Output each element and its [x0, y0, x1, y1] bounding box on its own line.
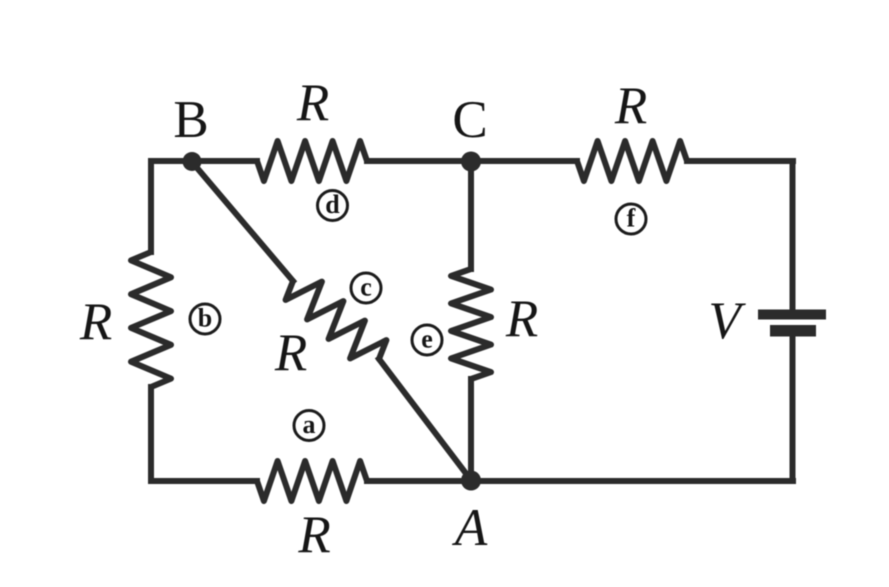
- wire bottom right: [367, 478, 793, 484]
- svg-text:e: e: [421, 325, 433, 354]
- resistor R f: [577, 141, 687, 181]
- node A: [461, 471, 481, 491]
- resistor R a: [257, 461, 367, 501]
- resistor R c: [286, 281, 387, 359]
- node C: [461, 152, 481, 172]
- wire right lower: [790, 337, 796, 481]
- resistor R e: [451, 269, 491, 379]
- node B: [183, 152, 202, 171]
- wire top middle: [367, 158, 577, 164]
- wire diagonal B to c: [192, 162, 293, 281]
- svg-text:C: C: [452, 91, 487, 149]
- circled f: [616, 204, 646, 235]
- wire C down: [468, 161, 474, 269]
- svg-text:V: V: [708, 292, 746, 350]
- svg-text:R: R: [505, 290, 538, 348]
- svg-text:R: R: [296, 74, 329, 132]
- circled c: [351, 273, 381, 304]
- wire bottom left: [151, 478, 257, 484]
- circled e: [412, 325, 442, 356]
- svg-text:d: d: [325, 190, 340, 219]
- svg-text:B: B: [173, 91, 208, 149]
- wire left lower: [148, 387, 154, 481]
- svg-text:f: f: [627, 204, 636, 233]
- wire top right: [687, 158, 793, 164]
- svg-text:A: A: [452, 499, 488, 557]
- svg-text:a: a: [303, 410, 316, 439]
- wire top-left horizontal: [151, 158, 257, 164]
- wire e to A: [468, 379, 474, 481]
- circled d: [318, 190, 348, 221]
- svg-text:R: R: [79, 293, 112, 351]
- battery V: [758, 310, 826, 337]
- resistor R b: [131, 252, 171, 387]
- circled a: [294, 410, 324, 441]
- wire left upper: [151, 161, 192, 252]
- svg-text:c: c: [360, 273, 372, 302]
- wire c to A: [379, 359, 471, 480]
- svg-text:R: R: [274, 324, 307, 382]
- svg-text:R: R: [614, 77, 647, 135]
- circled b: [190, 304, 220, 335]
- wire right upper: [790, 161, 796, 310]
- svg-text:b: b: [198, 304, 212, 333]
- svg-text:R: R: [297, 506, 330, 564]
- resistor R d: [257, 141, 367, 181]
